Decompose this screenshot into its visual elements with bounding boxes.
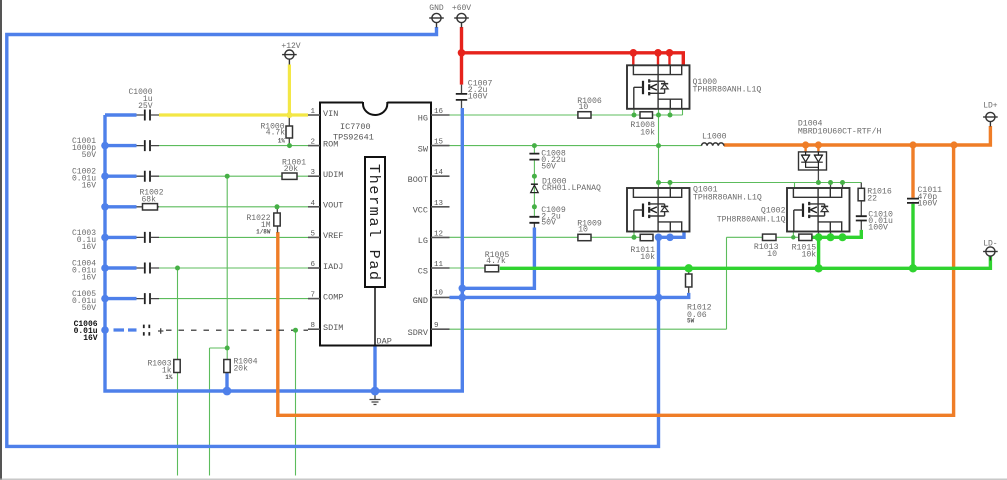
- svg-text:20k: 20k: [284, 165, 299, 174]
- svg-text:16V: 16V: [82, 243, 97, 252]
- svg-text:10k: 10k: [640, 128, 655, 138]
- svg-text:68k: 68k: [142, 196, 157, 205]
- svg-text:25V: 25V: [138, 102, 153, 111]
- svg-text:22: 22: [867, 194, 877, 203]
- svg-text:1/8W: 1/8W: [256, 229, 271, 236]
- svg-text:10k: 10k: [640, 252, 655, 262]
- svg-text:IC7700: IC7700: [340, 122, 371, 132]
- svg-text:SDIM: SDIM: [323, 323, 343, 333]
- svg-text:10: 10: [434, 290, 444, 298]
- svg-text:ROM: ROM: [323, 139, 338, 149]
- svg-text:TPH8R80ANH.L1Q: TPH8R80ANH.L1Q: [717, 215, 786, 224]
- svg-text:10k: 10k: [801, 249, 816, 259]
- svg-text:10: 10: [578, 226, 588, 235]
- svg-text:16V: 16V: [82, 182, 97, 191]
- svg-text:CS: CS: [418, 267, 428, 277]
- svg-text:1%: 1%: [165, 374, 173, 381]
- svg-text:+12V: +12V: [281, 42, 300, 51]
- svg-text:1: 1: [310, 108, 315, 116]
- svg-text:7: 7: [310, 292, 315, 300]
- svg-text:LD-: LD-: [983, 240, 997, 249]
- svg-text:Thermal Pad: Thermal Pad: [365, 164, 382, 282]
- svg-text:1%: 1%: [278, 137, 286, 144]
- svg-text:CRH01.LPANAQ: CRH01.LPANAQ: [542, 184, 601, 193]
- svg-text:SDRV: SDRV: [408, 328, 429, 338]
- svg-text:HG: HG: [418, 114, 428, 124]
- svg-text:GND: GND: [413, 296, 428, 306]
- svg-text:100V: 100V: [868, 224, 888, 233]
- svg-text:14: 14: [434, 169, 444, 177]
- svg-text:VOUT: VOUT: [323, 201, 343, 211]
- svg-text:11: 11: [434, 261, 444, 269]
- svg-text:TPH8R80ANH.L1Q: TPH8R80ANH.L1Q: [693, 85, 762, 94]
- svg-text:16V: 16V: [82, 273, 97, 282]
- svg-text:Q1002: Q1002: [761, 207, 786, 216]
- svg-text:10: 10: [767, 250, 777, 259]
- svg-text:20k: 20k: [234, 365, 249, 374]
- svg-text:50V: 50V: [541, 219, 556, 228]
- svg-text:GND: GND: [429, 4, 444, 13]
- svg-text:IADJ: IADJ: [323, 262, 343, 272]
- svg-text:BOOT: BOOT: [408, 175, 428, 185]
- svg-text:3: 3: [310, 169, 315, 177]
- svg-text:100V: 100V: [468, 93, 488, 102]
- svg-text:TPH8R80ANH.L1Q: TPH8R80ANH.L1Q: [693, 193, 762, 202]
- svg-text:6: 6: [310, 261, 315, 269]
- svg-text:16: 16: [434, 108, 444, 116]
- svg-text:12: 12: [434, 230, 443, 238]
- svg-text:VCC: VCC: [413, 206, 428, 216]
- svg-text:L1000: L1000: [702, 133, 727, 142]
- svg-text:50V: 50V: [82, 151, 97, 160]
- svg-text:15: 15: [434, 139, 444, 147]
- svg-text:SW: SW: [418, 144, 429, 154]
- svg-text:9: 9: [434, 322, 439, 330]
- svg-text:TPS92641: TPS92641: [333, 133, 374, 143]
- svg-text:LG: LG: [418, 236, 428, 246]
- svg-text:100V: 100V: [918, 200, 938, 209]
- svg-text:10: 10: [579, 103, 589, 112]
- svg-text:4: 4: [310, 200, 315, 208]
- svg-text:DAP: DAP: [377, 337, 392, 347]
- svg-text:50V: 50V: [541, 162, 556, 171]
- svg-text:VIN: VIN: [323, 109, 338, 119]
- svg-text:+60V: +60V: [452, 4, 471, 13]
- svg-text:5: 5: [310, 230, 315, 238]
- svg-text:5W: 5W: [687, 318, 695, 325]
- svg-text:13: 13: [434, 200, 444, 208]
- svg-text:COMP: COMP: [323, 292, 343, 302]
- svg-text:UDIM: UDIM: [323, 170, 343, 180]
- svg-text:16V: 16V: [83, 334, 98, 343]
- svg-text:50V: 50V: [82, 304, 97, 313]
- svg-text:8: 8: [310, 322, 315, 330]
- svg-text:LD+: LD+: [983, 102, 998, 111]
- svg-text:2: 2: [310, 139, 315, 147]
- svg-text:VREF: VREF: [323, 231, 343, 241]
- svg-text:MBRD10U60CT-RTF/H: MBRD10U60CT-RTF/H: [798, 127, 882, 137]
- svg-text:4.7k: 4.7k: [486, 256, 506, 266]
